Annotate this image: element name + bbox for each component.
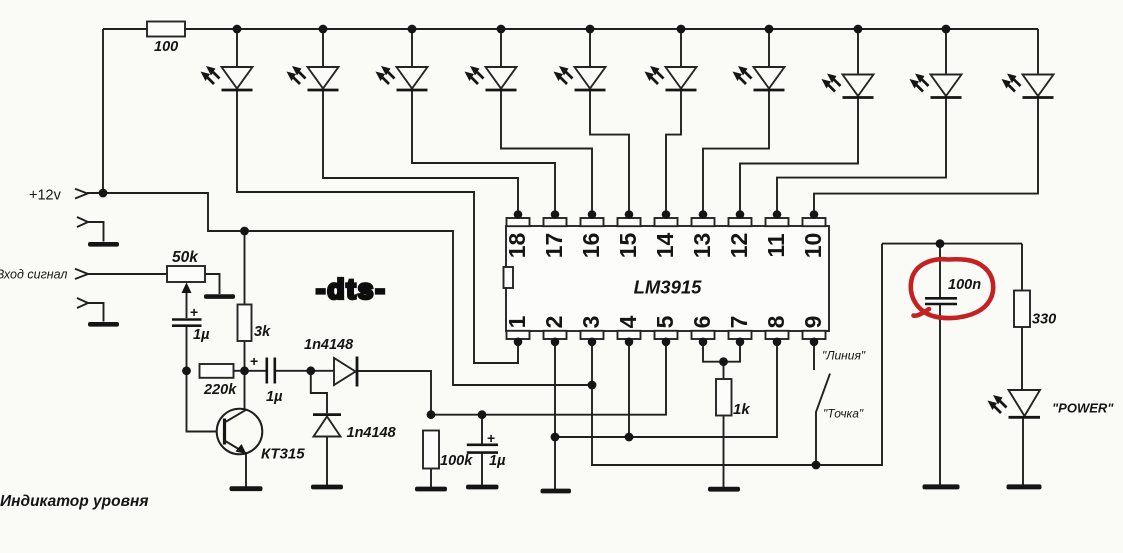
wire LED2 cathode to pin 18 xyxy=(323,90,518,215)
svg-text:"Линия": "Линия" xyxy=(822,349,866,363)
red highlight circle around C4 100n xyxy=(911,259,993,318)
components layer xyxy=(147,22,1030,469)
ground (C3) xyxy=(466,485,499,490)
LED D12 xyxy=(1002,74,1054,98)
node C3 junction xyxy=(478,410,487,419)
wire LED6 cathode to pin 14 xyxy=(666,90,681,215)
node top rail junction LED7 xyxy=(765,25,774,34)
svg-text:"Точка": "Точка" xyxy=(823,407,864,421)
svg-text:1µ: 1µ xyxy=(266,389,283,405)
svg-text:7: 7 xyxy=(726,316,752,329)
pin 2 (bottom tab) xyxy=(541,316,567,346)
wire ground stub 1 xyxy=(88,222,104,242)
wire pin6-pin7 bridge xyxy=(703,342,740,362)
svg-text:+: + xyxy=(487,430,495,446)
pin 1 (bottom tab) xyxy=(504,315,530,346)
wire LED9 cathode to pin 11 xyxy=(777,98,946,215)
diode D2 1n4148 (shunt, vertical) xyxy=(314,417,341,437)
IC U1 LM3915 xyxy=(504,226,830,331)
wire diode node jog to shunt diode xyxy=(311,371,327,414)
svg-text:100n: 100n xyxy=(948,277,981,293)
potentiometer wiper arrow xyxy=(182,283,192,294)
svg-text:17: 17 xyxy=(541,233,567,259)
wire transistor emitter to ground xyxy=(245,454,247,487)
wire cap to 220k node xyxy=(186,327,188,371)
capacitor C2 1u (series, polarized) xyxy=(267,358,275,384)
ground (shunt diode) xyxy=(311,485,343,490)
wire pot right terminal to ground xyxy=(205,274,220,294)
LED D10 xyxy=(822,74,874,98)
connector ground stub 1 xyxy=(77,217,88,227)
resistor 3k xyxy=(238,305,252,342)
resistor 330 xyxy=(1014,291,1030,328)
node C4 top junction xyxy=(936,239,945,248)
svg-text:330: 330 xyxy=(1032,312,1056,328)
svg-text:1n4148: 1n4148 xyxy=(347,425,397,441)
svg-text:+: + xyxy=(190,304,198,320)
wire top supply rail xyxy=(103,28,1038,30)
node top rail junction LED1 xyxy=(233,25,242,34)
svg-text:100k: 100k xyxy=(440,453,473,469)
svg-text:220k: 220k xyxy=(203,382,237,398)
pin 13 (top tab) xyxy=(689,210,715,258)
grounds xyxy=(88,242,1042,493)
resistor 220k xyxy=(200,364,234,378)
svg-text:18: 18 xyxy=(504,233,530,259)
pin 12 (top tab) xyxy=(726,210,752,258)
svg-text:3: 3 xyxy=(578,316,604,329)
node switch common junction xyxy=(812,461,821,470)
wire right top branch: riser to 100n and 330 xyxy=(882,243,1022,245)
svg-text:2: 2 xyxy=(541,316,567,329)
wire pin3 down, right along y465 and up right riser to top node xyxy=(592,244,882,465)
wire LED1 cathode to pin 1 xyxy=(237,90,518,363)
svg-text:13: 13 xyxy=(689,233,715,259)
svg-text:КТ315: КТ315 xyxy=(261,446,305,463)
wire 100n cap column xyxy=(939,244,941,485)
node 3k to +12v rail junction xyxy=(240,227,249,236)
ground (100k) xyxy=(415,487,447,492)
svg-text:10: 10 xyxy=(800,233,826,259)
LED D4 xyxy=(287,66,339,90)
pin 10 (top tab) xyxy=(800,210,826,258)
capacitor C3 1u (at 100k node, polarized) xyxy=(467,445,498,453)
svg-text:6: 6 xyxy=(689,316,715,329)
svg-text:14: 14 xyxy=(652,233,678,259)
connector +12v xyxy=(75,189,88,199)
connectors xyxy=(75,189,88,308)
wire LED4 cathode to pin 16 xyxy=(501,90,592,215)
wire LED3 cathode to pin 17 xyxy=(412,90,555,215)
wire 220k to 3k node xyxy=(234,370,245,372)
svg-text:12: 12 xyxy=(726,233,752,259)
ground (1k) xyxy=(708,487,740,492)
diode D1 1n4148 (series, horizontal) xyxy=(334,358,356,385)
pin 6 (bottom tab) xyxy=(689,316,715,346)
svg-text:50k: 50k xyxy=(172,249,199,266)
svg-text:15: 15 xyxy=(615,233,641,259)
wire pin4 down to ground rail xyxy=(628,342,630,438)
wire node to transistor base xyxy=(187,371,218,432)
resistor R 100 xyxy=(147,22,185,37)
node pin6/pin7/1k junction xyxy=(719,357,728,366)
node top rail junction LED5 xyxy=(586,25,595,34)
svg-text:5: 5 xyxy=(652,315,678,328)
node top rail junction LED8 xyxy=(854,25,863,34)
wire pin5 down and left along y414.7 xyxy=(431,342,666,415)
wire diode node to series diode anode xyxy=(311,370,334,372)
connector signal input xyxy=(75,269,88,279)
ground (100n) xyxy=(923,484,960,489)
svg-text:1k: 1k xyxy=(733,401,750,418)
resistor 100k xyxy=(423,431,439,469)
wire LED10 cathode to pin 10 xyxy=(814,29,1038,215)
node top rail junction LED3 xyxy=(408,25,417,34)
wire pin9 stub xyxy=(813,342,815,371)
wire pot wiper to cap xyxy=(186,292,188,318)
connector ground stub 2 xyxy=(77,298,88,308)
wire 3k bottom to node xyxy=(244,341,246,371)
IC notch xyxy=(504,267,514,288)
pin 11 (top tab) xyxy=(763,210,789,257)
node +12v input junction xyxy=(99,189,108,198)
svg-text:3k: 3k xyxy=(254,324,271,340)
pin 4 (bottom tab) xyxy=(615,315,641,346)
pin 18 (top tab) xyxy=(504,210,530,258)
svg-text:100: 100 xyxy=(154,39,178,55)
svg-text:16: 16 xyxy=(578,233,604,259)
node wiper-cap/220k/base junction xyxy=(182,366,191,375)
pin 5 (bottom tab) xyxy=(652,315,678,346)
LED power xyxy=(988,390,1041,417)
pin 8 (bottom tab) xyxy=(763,315,789,346)
LED D5 xyxy=(376,66,428,90)
svg-text:-dts-: -dts- xyxy=(316,274,387,305)
LED D7 xyxy=(554,66,606,90)
capacitor C1 1u (pot wiper, polarized) xyxy=(172,320,202,326)
LED D3 xyxy=(201,66,253,90)
ground (power LED) xyxy=(1007,484,1042,489)
ground (pot) xyxy=(204,294,235,299)
node top rail junction LED4 xyxy=(497,25,506,34)
wire ground stub 2 xyxy=(88,303,104,322)
svg-text:Вход сигнал: Вход сигнал xyxy=(0,268,67,282)
node pin3 V+ junction xyxy=(588,381,597,390)
LED D9 xyxy=(733,66,785,90)
ground (input stub 2) xyxy=(88,322,119,327)
svg-text:11: 11 xyxy=(763,233,789,258)
svg-text:+12v: +12v xyxy=(29,188,62,204)
node top rail junction LED6 xyxy=(677,25,686,34)
wire cap3 drop xyxy=(481,415,483,485)
potentiometer 50k body xyxy=(167,266,205,282)
svg-text:1: 1 xyxy=(504,315,530,328)
node top rail junction LED9 xyxy=(942,25,951,34)
wire node to series cap xyxy=(245,370,267,372)
pin 16 (top tab) xyxy=(578,210,604,258)
svg-text:8: 8 xyxy=(763,315,789,328)
svg-text:1µ: 1µ xyxy=(193,327,210,343)
svg-text:4: 4 xyxy=(615,315,641,328)
transistor Q1 KT315 xyxy=(217,409,263,455)
wire shunt diode to ground xyxy=(326,437,328,485)
wire pin2 to ground xyxy=(554,342,556,490)
wire input signal to pot xyxy=(88,273,167,275)
wire left vertical from rail to +12v node xyxy=(102,29,104,193)
LED D11 xyxy=(910,74,962,98)
svg-text:1µ: 1µ xyxy=(489,453,506,469)
wire switch blade xyxy=(816,374,830,465)
pin 3 (bottom tab) xyxy=(578,316,604,346)
pin 15 (top tab) xyxy=(615,210,641,258)
wires layer xyxy=(87,29,1038,489)
wire LED5 cathode to pin 15 xyxy=(590,90,629,215)
capacitor C4 100n xyxy=(925,298,957,304)
ground (pin 2) xyxy=(541,489,572,494)
wire 1k top xyxy=(723,362,725,379)
ground (transistor emitter) xyxy=(230,486,263,491)
wire 1k bottom to ground xyxy=(723,416,725,488)
svg-text:1n4148: 1n4148 xyxy=(304,337,354,353)
svg-text:Индикатор уровня: Индикатор уровня xyxy=(0,493,148,510)
pin 17 (top tab) xyxy=(541,210,567,258)
pin 9 (bottom tab) xyxy=(800,316,826,346)
LED D8 xyxy=(645,66,697,90)
svg-text:+: + xyxy=(250,353,258,369)
wire series cap to diode node xyxy=(275,370,311,372)
node top rail junction LED2 xyxy=(319,25,328,34)
wire LED7 cathode to pin 13 xyxy=(703,90,769,215)
svg-text:"POWER": "POWER" xyxy=(1052,401,1114,416)
wire 3k top branch from +12v rail xyxy=(244,231,246,305)
wire series diode cathode right and down to 100k node xyxy=(358,371,432,415)
wire LED anode drops from rail xyxy=(237,29,946,75)
wire pin8 down and ground rail to pin2 xyxy=(555,342,777,438)
wire 330 column xyxy=(1022,244,1023,485)
node pin4 ground-rail junction xyxy=(625,433,634,442)
pin 14 (top tab) xyxy=(652,210,678,258)
wire transistor collector xyxy=(244,371,246,410)
resistor 1k xyxy=(716,379,732,416)
wire +12v feed: right, down, right, down, right to pin3 xyxy=(87,193,592,385)
wire 100k to ground xyxy=(430,469,432,488)
LED D6 xyxy=(465,66,517,90)
node C2/D1/D2 junction xyxy=(306,366,315,375)
node 220k/3k/collector/C2 junction xyxy=(240,366,249,375)
ground (input stub 1) xyxy=(88,242,119,247)
node pin2 ground-rail junction xyxy=(551,433,560,442)
pin 7 (bottom tab) xyxy=(726,316,752,346)
node D1/100k junction xyxy=(427,410,436,419)
wire LED8 cathode to pin 12 xyxy=(740,98,858,215)
svg-text:9: 9 xyxy=(800,316,826,329)
svg-text:LM3915: LM3915 xyxy=(634,277,703,298)
